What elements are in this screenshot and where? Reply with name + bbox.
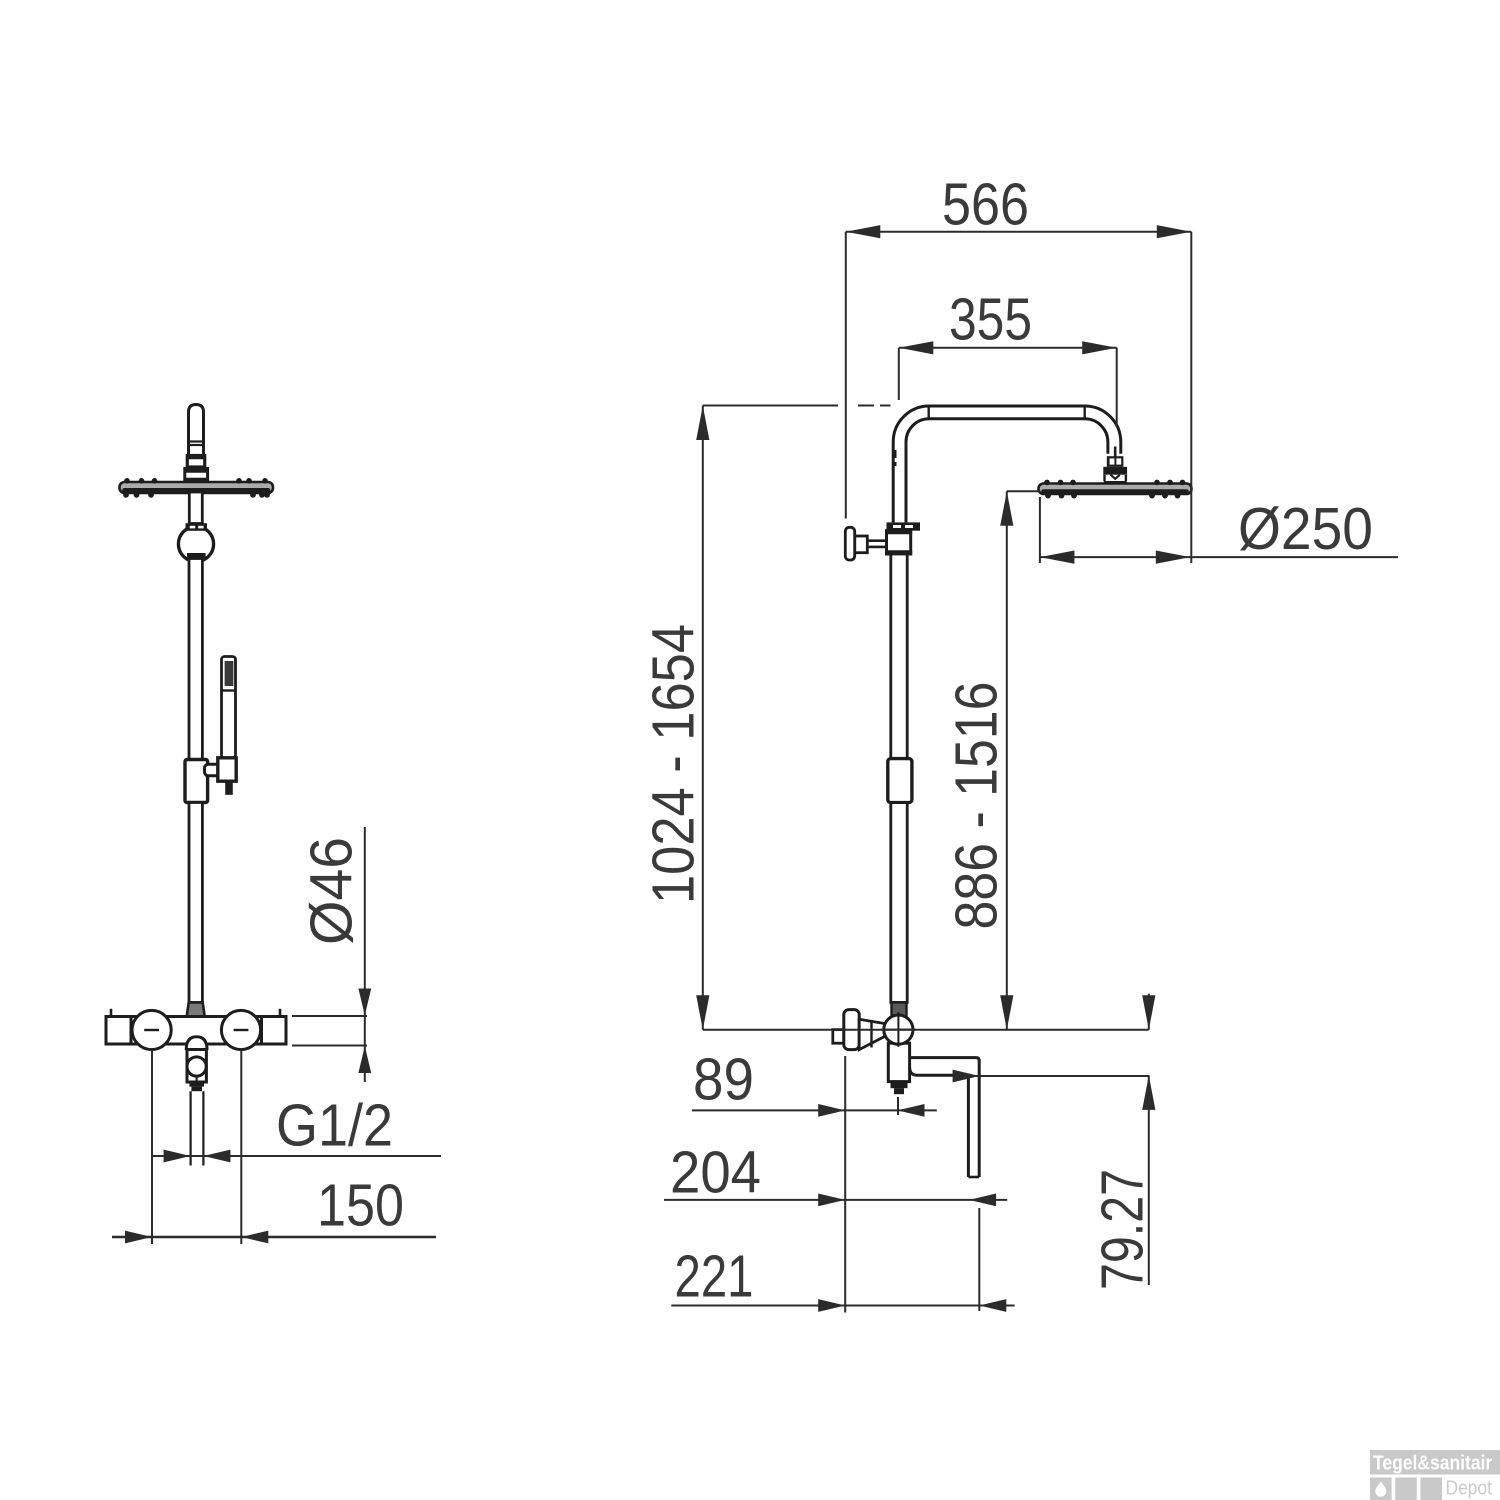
dim 355 xyxy=(899,287,1117,428)
mixer neck cone xyxy=(859,1019,884,1049)
rain shower head (side view) xyxy=(1039,484,1192,495)
mixer valve body (side) xyxy=(888,1043,909,1081)
svg-text:89: 89 xyxy=(693,1047,754,1113)
wall bracket clamp xyxy=(885,531,912,554)
dim 79.27 xyxy=(953,994,1156,1290)
riser pipe upper section xyxy=(189,559,202,760)
slider bracket on riser xyxy=(185,760,208,803)
svg-text:1024 - 1654: 1024 - 1654 xyxy=(641,624,707,904)
svg-text:G1/2: G1/2 xyxy=(276,1092,393,1158)
mixer inlet adapter (side) xyxy=(892,1002,907,1016)
hand shower holder xyxy=(218,758,236,781)
ball joint xyxy=(178,523,213,561)
dim G1/2 xyxy=(152,1092,441,1162)
holder link arm xyxy=(205,764,221,776)
arm end nut xyxy=(1107,447,1124,467)
riser pipe lower (side) xyxy=(891,803,907,1003)
top pipe flange xyxy=(184,469,210,482)
svg-text:221: 221 xyxy=(675,1244,754,1310)
mixer inlet adapter xyxy=(187,1003,205,1017)
mixer bottom nut xyxy=(891,1082,908,1095)
wall bracket step xyxy=(855,536,868,553)
svg-text:Tegel&sanitair: Tegel&sanitair xyxy=(1373,1451,1493,1473)
diverter dome xyxy=(186,1037,207,1050)
mixer axis extension stub xyxy=(897,1097,899,1115)
G1/2 outlet stub xyxy=(191,1091,204,1165)
svg-text:566: 566 xyxy=(942,172,1029,238)
dim 1024 - 1654 xyxy=(641,406,891,1030)
wall plane extension line xyxy=(844,1056,846,1313)
mixer handle step (side) xyxy=(833,1030,844,1044)
svg-text:886 - 1516: 886 - 1516 xyxy=(944,682,1010,930)
svg-text:204: 204 xyxy=(670,1140,761,1206)
dim diameter 46 xyxy=(292,827,371,1082)
head ball connector xyxy=(1103,467,1127,486)
left handle xyxy=(132,1010,171,1049)
hand shower body xyxy=(222,657,236,759)
mixer centre baseline xyxy=(703,1029,1149,1031)
svg-text:Ø250: Ø250 xyxy=(1238,496,1373,562)
svg-text:Ø46: Ø46 xyxy=(299,837,365,945)
mixer handle knob (side) xyxy=(844,1010,859,1050)
wall bracket neck xyxy=(867,541,886,547)
riser pipe lower section xyxy=(189,803,202,1003)
riser pipe upper (side) xyxy=(891,554,907,759)
dim 150 xyxy=(112,1051,436,1245)
mixer body circle xyxy=(881,1012,915,1046)
svg-text:150: 150 xyxy=(317,1172,404,1238)
svg-text:355: 355 xyxy=(949,287,1032,353)
dim 886 - 1516 xyxy=(944,491,1040,1030)
tub spout xyxy=(910,1058,980,1177)
wall bracket knob xyxy=(845,527,854,560)
diverter lower nut xyxy=(189,1082,204,1091)
svg-text:79.27: 79.27 xyxy=(1090,1169,1156,1290)
top pipe nut xyxy=(186,456,206,468)
shower arm outer contour xyxy=(893,406,1121,522)
dim 204 xyxy=(664,1140,1007,1207)
stem below head xyxy=(189,492,202,524)
body top nubs xyxy=(111,1009,280,1017)
riser coupling sleeve xyxy=(888,759,912,803)
top supply pipe xyxy=(189,405,204,457)
head nozzles (side view) xyxy=(1044,480,1185,499)
hand shower inlet nipple xyxy=(225,781,233,795)
dim 89 xyxy=(692,1047,937,1117)
dim 221 xyxy=(671,1208,1014,1312)
dim diameter 250 xyxy=(1040,496,1398,564)
shower head nozzles xyxy=(123,478,270,498)
rain shower head (edge view) xyxy=(120,482,274,493)
svg-text:Depot: Depot xyxy=(1446,1477,1493,1500)
thermostat body xyxy=(106,1017,286,1045)
right handle xyxy=(221,1010,260,1049)
diverter body xyxy=(187,1050,206,1083)
dim 566 xyxy=(846,172,1192,564)
wall bracket flange xyxy=(887,522,921,530)
